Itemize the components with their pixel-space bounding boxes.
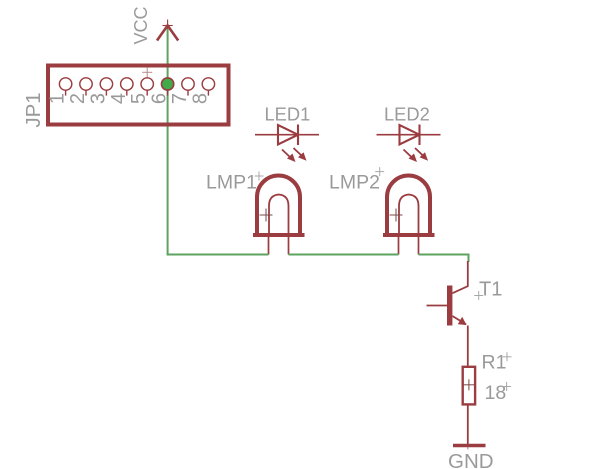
- T1 emitter wire: [467, 326, 469, 368]
- JP1 body: [48, 66, 229, 125]
- R1 value cross: [502, 386, 511, 388]
- LMP2 origin cross: [390, 214, 403, 216]
- LMP2 right leg: [418, 237, 420, 255]
- LMP1 base bar: [253, 233, 305, 237]
- LED2 light arrow b: [415, 148, 425, 157]
- svg-text:LMP2: LMP2: [329, 172, 380, 194]
- T1 label cross: [474, 295, 483, 297]
- LED2 cathode bar: [418, 125, 420, 146]
- ground GND: [448, 444, 494, 469]
- svg-text:GND: GND: [448, 450, 494, 469]
- VCC pin cross: [167, 20, 169, 31]
- LMP2 left leg: [398, 237, 400, 255]
- GND stub: [467, 444, 469, 450]
- LMP1 left leg: [268, 237, 270, 255]
- svg-text:4: 4: [108, 93, 130, 104]
- resistor R1: [463, 352, 512, 405]
- LMP2 label cross: [375, 171, 384, 173]
- LMP2 base bar: [383, 233, 435, 237]
- connector JP1: [22, 66, 229, 128]
- wire VCC to node: [167, 29, 169, 255]
- junction node pin6: [162, 78, 174, 90]
- LMP1 dome: [257, 175, 300, 235]
- svg-text:6: 6: [149, 93, 171, 104]
- GND bar: [453, 444, 486, 448]
- LMP1 origin cross: [260, 214, 273, 216]
- svg-text:R1: R1: [482, 352, 507, 374]
- origin cross: [142, 71, 152, 73]
- svg-text:JP1: JP1: [22, 92, 45, 127]
- pin 7: [182, 78, 194, 90]
- LMP1 filament dome: [269, 195, 289, 234]
- pin 4: [121, 78, 133, 90]
- R1 origin cross: [463, 384, 474, 386]
- LMP1 right leg: [288, 237, 290, 255]
- svg-text:LED1: LED1: [265, 104, 311, 125]
- T1 collector: [452, 261, 467, 293]
- pin 8: [202, 78, 214, 90]
- LED LED2: [377, 104, 441, 163]
- lamp LMP2: [329, 167, 435, 254]
- R1 body: [463, 367, 475, 405]
- LED2 light arrow a: [404, 150, 414, 159]
- pin 3: [100, 78, 112, 90]
- T1 base bar: [447, 286, 452, 326]
- VCC arrow: [157, 26, 178, 41]
- wire LMP2 to T1 collector: [419, 255, 469, 263]
- svg-text:2: 2: [67, 93, 89, 104]
- LMP1 label cross: [255, 175, 264, 177]
- LED1 light arrow b: [294, 148, 304, 157]
- lamp LMP1: [206, 172, 305, 255]
- pin 6: [161, 78, 173, 90]
- LED1 anode triangle: [278, 125, 298, 145]
- power VCC: [131, 6, 178, 44]
- pin 5: [141, 78, 153, 90]
- LED2 anode triangle: [400, 125, 420, 145]
- svg-text:LMP1: LMP1: [206, 172, 257, 194]
- wire R1 to GND: [467, 405, 469, 445]
- svg-text:5: 5: [128, 93, 150, 104]
- svg-text:VCC: VCC: [131, 6, 151, 44]
- LED LED1: [255, 104, 319, 163]
- svg-text:18: 18: [485, 382, 507, 404]
- svg-text:T1: T1: [479, 279, 502, 301]
- LED2 lead: [377, 134, 441, 136]
- svg-text:3: 3: [87, 93, 109, 104]
- LED1 lead: [255, 134, 319, 136]
- svg-text:LED2: LED2: [384, 104, 430, 125]
- pin 2: [80, 78, 92, 90]
- T1 base wire: [427, 305, 448, 307]
- transistor T1: [427, 261, 503, 367]
- LED1 light arrow a: [282, 150, 292, 159]
- LMP2 filament dome: [399, 195, 419, 234]
- T1 emitter: [452, 316, 466, 324]
- pin 1: [59, 78, 71, 90]
- LMP2 dome: [387, 175, 430, 235]
- R1 label cross: [503, 356, 512, 358]
- svg-text:8: 8: [189, 93, 211, 104]
- wire LMP1 to LMP2: [289, 254, 399, 256]
- svg-text:7: 7: [169, 93, 191, 104]
- LED1 cathode bar: [297, 125, 299, 146]
- svg-text:1: 1: [47, 93, 69, 104]
- wire node to LMP1: [167, 254, 269, 256]
